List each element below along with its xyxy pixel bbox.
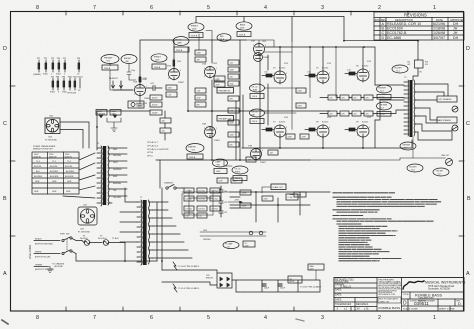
svg-text:D: D xyxy=(3,46,7,52)
svg-text:T2-7: T2-7 xyxy=(438,173,442,175)
svg-text:GRN/WH: GRN/WH xyxy=(403,145,411,147)
corner scan smudge center xyxy=(296,319,304,321)
tube V3A lower xyxy=(202,123,221,143)
svg-text:C: C xyxy=(382,31,385,35)
svg-text:8: 8 xyxy=(357,79,358,81)
svg-text:GRN: GRN xyxy=(66,191,71,193)
svg-text:TO V4-V7 PIN 4,5 AND 9: TO V4-V7 PIN 4,5 AND 9 xyxy=(300,286,321,289)
svg-text:5: 5 xyxy=(357,127,358,129)
svg-text:C: C xyxy=(466,121,470,127)
svg-text:039511: 039511 xyxy=(414,301,429,306)
svg-text:PWR AMP IN: PWR AMP IN xyxy=(219,90,231,93)
svg-text:3/07/97: 3/07/97 xyxy=(433,36,445,40)
svg-text:6: 6 xyxy=(180,70,181,72)
wires connector to transformer xyxy=(60,122,89,148)
impedance callouts right xyxy=(400,142,416,150)
power switch S1 pole B xyxy=(62,239,157,261)
svg-text:8: 8 xyxy=(317,135,318,137)
B+ rail preamp xyxy=(140,40,246,76)
heater twisted pair xyxy=(200,230,266,241)
svg-text:5: 5 xyxy=(207,5,210,11)
svg-text:BLK/YEL: BLK/YEL xyxy=(65,166,73,168)
svg-text:15K B: 15K B xyxy=(252,96,258,98)
svg-text:5A 250V: 5A 250V xyxy=(80,237,88,240)
svg-text:NOT FOUND ASSY: NOT FOUND ASSY xyxy=(379,298,399,301)
wire fuse to transformer xyxy=(125,202,157,261)
svg-text:250K A: 250K A xyxy=(191,34,198,37)
svg-text:6/21/96: 6/21/96 xyxy=(433,22,445,26)
svg-text:3: 3 xyxy=(204,76,205,78)
slave level boxes xyxy=(290,192,306,197)
svg-text:D9 1N4: D9 1N4 xyxy=(212,209,218,211)
svg-text:6L6GC: 6L6GC xyxy=(322,122,329,124)
svg-text:ZON: ZON xyxy=(375,18,381,22)
svg-text:5W: 5W xyxy=(419,72,422,74)
svg-text:.022: .022 xyxy=(248,159,252,161)
svg-text:250p: 250p xyxy=(230,83,234,85)
lamp feed boxes row xyxy=(96,110,121,119)
R3 plate resistor V1A xyxy=(139,76,147,84)
svg-text:D3 1N4: D3 1N4 xyxy=(212,191,218,193)
svg-text:3: 3 xyxy=(134,94,135,96)
svg-text:.047: .047 xyxy=(270,152,274,154)
svg-text:B: B xyxy=(467,196,471,202)
rectifier diode string lower xyxy=(184,206,220,211)
svg-text:3: 3 xyxy=(286,127,287,129)
svg-text:2: 2 xyxy=(134,86,135,88)
svg-text:470: 470 xyxy=(330,98,333,100)
mid pot wire xyxy=(199,31,212,51)
svg-text:7: 7 xyxy=(250,150,251,152)
svg-text:.022: .022 xyxy=(230,62,234,64)
svg-text:470: 470 xyxy=(366,114,369,116)
svg-text:BLK/WH: BLK/WH xyxy=(410,167,418,169)
svg-text:DEEP: DEEP xyxy=(216,162,222,164)
svg-text:RED: RED xyxy=(113,149,118,151)
svg-text:GROUND: GROUND xyxy=(54,266,63,268)
power switch S1 pole A xyxy=(60,234,82,242)
svg-text:5: 5 xyxy=(274,73,275,75)
svg-text:25K B: 25K B xyxy=(252,121,258,123)
svg-text:5: 5 xyxy=(274,127,275,129)
lower channel coupling boxes xyxy=(246,150,278,162)
svg-text:D8 1N4: D8 1N4 xyxy=(199,209,205,211)
svg-text:D11: D11 xyxy=(199,216,202,218)
V8 grid resistor xyxy=(305,128,317,131)
svg-text:ECO1782-B: ECO1782-B xyxy=(387,31,407,35)
svg-text:3: 3 xyxy=(321,315,324,321)
rectifier diode string upper xyxy=(182,188,230,193)
bias callout upper xyxy=(250,84,265,99)
svg-text:Scottsdale, AZ 85258: Scottsdale, AZ 85258 xyxy=(428,287,451,290)
svg-text:LAMP: LAMP xyxy=(137,105,143,108)
svg-text:T2-5: T2-5 xyxy=(404,147,408,149)
bias regulator box xyxy=(288,276,302,283)
svg-text:C: C xyxy=(3,121,7,127)
svg-text:50/60 Hz: 50/60 Hz xyxy=(65,157,73,159)
mid horizontal bus xyxy=(188,110,330,112)
svg-text:REVISIONS: REVISIONS xyxy=(404,13,427,18)
svg-text:820: 820 xyxy=(197,104,200,106)
callout ellipse A (gain) xyxy=(173,37,189,53)
standby switch xyxy=(164,182,182,190)
svg-text:GRN: GRN xyxy=(203,230,208,232)
callout MASTER VOL xyxy=(186,144,204,160)
svg-text:.047uF: .047uF xyxy=(152,98,159,100)
callout MID xyxy=(217,34,231,42)
svg-text:2: 2 xyxy=(378,5,381,11)
value box stack col 228 lower xyxy=(228,96,239,147)
svg-text:DATE:: DATE: xyxy=(335,289,342,292)
bias supply wires xyxy=(162,270,320,292)
svg-text:D: D xyxy=(466,46,470,52)
svg-text:RED/WH: RED/WH xyxy=(113,155,122,157)
mains connector CN1 xyxy=(78,205,97,234)
HT filter caps xyxy=(219,186,227,217)
svg-text:PERSON WITHOUT WRITTEN: PERSON WITHOUT WRITTEN xyxy=(379,289,402,291)
top-left dropping resistor bank row 2 xyxy=(50,77,84,95)
svg-text:8: 8 xyxy=(274,81,275,83)
svg-text:BLK/RED: BLK/RED xyxy=(66,171,75,173)
svg-text:50/60 Hz: 50/60 Hz xyxy=(49,157,57,159)
svg-text:MC78: MC78 xyxy=(290,281,295,283)
svg-text:4: 4 xyxy=(264,5,267,11)
svg-text:8: 8 xyxy=(168,78,169,80)
export voltage selector table xyxy=(32,145,79,194)
svg-text:V2A: V2A xyxy=(202,63,206,66)
svg-text:TO V1-V3 PIN 4,5 AND 9: TO V1-V3 PIN 4,5 AND 9 xyxy=(178,287,199,290)
resistor strings center xyxy=(188,40,260,160)
svg-text:D4 1N4: D4 1N4 xyxy=(186,199,192,201)
corner scan smudge left xyxy=(2,320,8,324)
V6 grid resistor xyxy=(345,70,357,76)
svg-text:T2-3: T2-3 xyxy=(380,107,384,109)
svg-text:GRN: GRN xyxy=(34,191,39,193)
notes text lines xyxy=(333,193,441,261)
callout PRE AMP VOL xyxy=(101,55,119,71)
preamp B+ dropping chain xyxy=(160,111,171,140)
cathode network V1A xyxy=(136,96,148,108)
svg-text:10K B: 10K B xyxy=(219,39,225,41)
svg-text:T2-6: T2-6 xyxy=(411,169,415,171)
callout TREBLE ch1 xyxy=(151,54,167,69)
svg-text:C31: C31 xyxy=(224,202,227,204)
svg-text:.XX: .XX xyxy=(356,308,360,311)
line out feed wire xyxy=(310,158,413,160)
svg-text:±.01: ±.01 xyxy=(364,308,369,311)
screen supply drops xyxy=(309,46,365,97)
svg-text:BLK/YEL: BLK/YEL xyxy=(34,166,42,168)
svg-text:250K A: 250K A xyxy=(239,33,246,36)
balance callout lower xyxy=(250,109,265,124)
svg-text:USED ON: USED ON xyxy=(379,301,389,303)
svg-text:DATE:: DATE: xyxy=(335,294,342,297)
svg-text:WHITE: WHITE xyxy=(35,252,42,254)
mid bus wire xyxy=(97,111,150,150)
svg-text:RELEASED, COR 10: RELEASED, COR 10 xyxy=(387,22,421,26)
callout PRESENCE xyxy=(232,166,248,181)
svg-text:BRN/WH: BRN/WH xyxy=(379,88,387,90)
svg-text:B: B xyxy=(3,196,7,202)
svg-text:6: 6 xyxy=(262,150,263,152)
svg-text:470: 470 xyxy=(342,98,345,100)
svg-text:LINE OUT: LINE OUT xyxy=(441,155,450,157)
power tube V6 xyxy=(356,66,369,83)
svg-text:OPT-A Ch 7: OPT-A Ch 7 xyxy=(147,141,159,144)
svg-text:PWR: PWR xyxy=(60,234,65,236)
power tube V8 xyxy=(316,122,329,139)
fender logo squiggle xyxy=(403,281,424,289)
T2 winding colour callouts xyxy=(392,65,408,73)
svg-text:OPT-A-Ch-2: OPT-A-Ch-2 xyxy=(147,144,159,147)
svg-text:GAIN: GAIN xyxy=(177,41,182,44)
svg-text:V3B: V3B xyxy=(248,146,252,148)
line out jack xyxy=(413,137,453,166)
svg-text:RUMBLE BASS: RUMBLE BASS xyxy=(379,306,401,310)
svg-text:3: 3 xyxy=(329,127,330,129)
svg-text:TREBLE: TREBLE xyxy=(154,57,162,59)
svg-text:SW: SW xyxy=(217,164,220,166)
svg-text:250K A: 250K A xyxy=(104,67,111,70)
svg-text:(-MEAS): (-MEAS) xyxy=(33,73,41,76)
svg-text:12AX7: 12AX7 xyxy=(260,161,267,164)
svg-text:PROPRIETARY: PROPRIETARY xyxy=(379,278,395,281)
power transformer T1 secondary winding xyxy=(97,143,122,206)
top-left dropping resistor bank row 1 xyxy=(33,58,81,76)
rectifier diode string lowest xyxy=(184,213,207,218)
svg-text:6: 6 xyxy=(150,315,153,321)
svg-text:12AX7: 12AX7 xyxy=(263,56,270,59)
svg-text:LEVEL: LEVEL xyxy=(296,195,302,197)
svg-text:ECO1699: ECO1699 xyxy=(387,27,403,31)
tube V1A xyxy=(133,81,151,101)
T1 primary lead wires xyxy=(120,188,192,258)
svg-text:3: 3 xyxy=(286,73,287,75)
svg-text:100K: 100K xyxy=(216,171,221,173)
svg-text:SW: SW xyxy=(66,234,69,236)
svg-text:12AX7: 12AX7 xyxy=(214,139,221,142)
svg-text:YEL/WH: YEL/WH xyxy=(113,197,121,199)
svg-text:250pF: 250pF xyxy=(152,113,158,115)
svg-text:2: 2 xyxy=(204,128,205,130)
svg-text:V.R. 03: V.R. 03 xyxy=(235,169,241,171)
svg-text:50/60 Hz: 50/60 Hz xyxy=(34,157,42,159)
T2 primary feed wires xyxy=(375,85,404,120)
svg-text:GRN/WH: GRN/WH xyxy=(203,239,211,241)
svg-text:OPT-C: OPT-C xyxy=(147,156,154,158)
filter cap boxes right of diodes xyxy=(240,190,273,208)
svg-text:3: 3 xyxy=(369,71,370,73)
svg-text:470: 470 xyxy=(354,114,357,116)
line cord white wire xyxy=(34,252,60,259)
tube V1B xyxy=(167,66,185,85)
callout TREBLE ch2 xyxy=(188,23,204,38)
svg-text:D1 1N4: D1 1N4 xyxy=(186,191,192,193)
svg-text:STANDBY: STANDBY xyxy=(164,182,174,185)
top right feed wire xyxy=(196,17,418,42)
title block middle column: proprietary notice xyxy=(378,278,403,310)
phase inverter node wires xyxy=(264,41,296,130)
svg-text:T2 PRI: T2 PRI xyxy=(379,97,385,99)
svg-text:6L6GC: 6L6GC xyxy=(279,122,286,124)
speaker output jacks xyxy=(437,96,458,131)
svg-text:470: 470 xyxy=(425,64,428,66)
svg-text:D7 1N4: D7 1N4 xyxy=(186,209,192,211)
svg-text:ORG/WH: ORG/WH xyxy=(380,105,388,107)
svg-text:BLK/GRN: BLK/GRN xyxy=(65,176,74,178)
lightning bolts heater feed xyxy=(173,262,199,292)
line cord label xyxy=(28,245,32,259)
svg-text:250K A: 250K A xyxy=(154,66,161,69)
svg-text:V2B: V2B xyxy=(251,41,255,43)
svg-text:TITLE:: TITLE: xyxy=(403,294,410,296)
title block left column rows xyxy=(334,279,377,312)
tube V3B lower xyxy=(248,146,267,165)
svg-text:C30: C30 xyxy=(224,191,227,193)
svg-text:BLK/RED: BLK/RED xyxy=(50,171,59,173)
wire table to bus xyxy=(156,160,160,188)
V9 grid resistor xyxy=(345,128,357,131)
svg-text:TUBE AMPLIFIER: TUBE AMPLIFIER xyxy=(418,297,434,300)
svg-text:PA INPUT: PA INPUT xyxy=(109,77,119,80)
stack of value boxes col 200 xyxy=(195,50,206,107)
pilot lamp assembly xyxy=(223,241,239,248)
svg-text:T1-2: T1-2 xyxy=(52,161,56,163)
svg-text:8: 8 xyxy=(36,5,39,11)
supply arrow right xyxy=(228,200,242,204)
line cord black wire xyxy=(34,238,60,246)
svg-text:T2-1: T2-1 xyxy=(396,70,400,72)
voltage specks xyxy=(143,41,372,119)
rectifier diode string mid xyxy=(184,196,220,201)
svg-text:5: 5 xyxy=(317,127,318,129)
screen resistor row lower xyxy=(320,111,378,116)
T2 secondary wires to jacks xyxy=(418,84,452,140)
svg-text:6: 6 xyxy=(150,5,153,11)
svg-text:250K: 250K xyxy=(155,59,160,61)
svg-text:8: 8 xyxy=(36,315,39,321)
svg-text:1/18/98: 1/18/98 xyxy=(433,27,445,31)
V7 grid resistor xyxy=(262,128,274,131)
pilot lamp box xyxy=(128,101,144,108)
svg-text:MUSICAL INSTRUMENTS: MUSICAL INSTRUMENTS xyxy=(425,281,466,285)
svg-text:EXT. SPEAKER: EXT. SPEAKER xyxy=(439,98,452,101)
svg-text:100uF: 100uF xyxy=(242,193,248,195)
svg-text:+490V: +490V xyxy=(234,200,240,202)
plate bus bottom row xyxy=(242,120,412,148)
tube V2A xyxy=(202,63,221,83)
svg-text:4: 4 xyxy=(264,315,267,321)
bright cap C2 xyxy=(127,64,136,80)
svg-text:1: 1 xyxy=(146,86,147,88)
svg-text:100uF: 100uF xyxy=(280,288,286,290)
svg-text:7: 7 xyxy=(253,45,254,47)
T1 secondary lead wires xyxy=(112,148,127,196)
svg-text:POWER TRANSFORMER: POWER TRANSFORMER xyxy=(33,145,56,148)
callout lower DEEP xyxy=(213,159,228,174)
svg-text:3: 3 xyxy=(329,73,330,75)
driver tube V3 second triode xyxy=(254,52,293,62)
svg-text:BRIDGE: BRIDGE xyxy=(206,278,214,280)
svg-text:D: D xyxy=(382,36,385,40)
svg-text:BAL: BAL xyxy=(252,113,255,116)
supply label boxes xyxy=(217,178,242,183)
svg-text:V3A: V3A xyxy=(202,123,206,126)
svg-text:SLAVE OUT: SLAVE OUT xyxy=(273,186,284,189)
svg-text:BASS: BASS xyxy=(240,24,246,27)
svg-text:820: 820 xyxy=(230,144,233,146)
selector table arrows to transformer xyxy=(63,153,95,198)
svg-text:T2-2: T2-2 xyxy=(380,90,384,92)
svg-text:7: 7 xyxy=(93,5,96,11)
svg-text:6: 6 xyxy=(265,45,266,47)
svg-text:JH: JH xyxy=(453,27,458,31)
choke boxes xyxy=(286,194,298,200)
svg-text:100uF: 100uF xyxy=(264,288,270,290)
svg-text:1: 1 xyxy=(433,315,436,321)
svg-text:OPTIONS: OPTIONS xyxy=(67,93,77,95)
svg-text:WIRING FOR EXPORT: WIRING FOR EXPORT xyxy=(33,149,54,151)
svg-text:10K B: 10K B xyxy=(235,178,241,180)
svg-text:7: 7 xyxy=(168,70,169,72)
svg-text:250K: 250K xyxy=(240,28,245,30)
svg-text:7: 7 xyxy=(93,315,96,321)
svg-text:8: 8 xyxy=(317,81,318,83)
svg-text:470: 470 xyxy=(366,98,369,100)
svg-text:TO V4-V7 PIN 4,5 AND 9: TO V4-V7 PIN 4,5 AND 9 xyxy=(178,265,199,268)
power tube V4 xyxy=(273,68,286,85)
svg-text:DH: DH xyxy=(453,36,459,40)
svg-text:BLACK: BLACK xyxy=(35,238,42,241)
svg-text:D: D xyxy=(403,301,407,307)
bias filter caps xyxy=(262,284,286,290)
svg-text:VOL: VOL xyxy=(192,149,196,151)
svg-text:INSTRUMENTS CORP.: INSTRUMENTS CORP. xyxy=(379,294,396,296)
option text lines xyxy=(147,141,169,158)
svg-text:12AX7: 12AX7 xyxy=(178,81,185,84)
svg-text:P1 GROUND: P1 GROUND xyxy=(78,231,90,233)
svg-text:5: 5 xyxy=(317,73,318,75)
callout BASS xyxy=(236,22,252,37)
svg-text:OPT-B: OPT-B xyxy=(147,152,154,154)
wire standby to rails xyxy=(162,188,240,270)
svg-text:D10: D10 xyxy=(186,216,189,218)
FX return wide box xyxy=(217,116,234,122)
svg-text:GRN: GRN xyxy=(52,191,57,193)
title block xyxy=(334,278,466,312)
svg-text:V.R. 02: V.R. 02 xyxy=(175,40,181,42)
svg-text:MAIN SPEAKER: MAIN SPEAKER xyxy=(438,119,452,122)
V4 grid resistor xyxy=(262,72,274,78)
plate bus top row xyxy=(265,47,375,85)
stack of value boxes col 232 xyxy=(228,60,239,86)
svg-text:V.R. 04: V.R. 04 xyxy=(252,87,258,89)
svg-text:8: 8 xyxy=(274,135,275,137)
svg-text:GREEN: GREEN xyxy=(35,264,43,266)
svg-text:V1A: V1A xyxy=(133,81,137,84)
V2B plate wire xyxy=(246,40,274,47)
svg-text:5: 5 xyxy=(357,71,358,73)
svg-text:GRN: GRN xyxy=(113,162,118,164)
slave out wide box xyxy=(262,184,286,193)
svg-text:EC-1886: EC-1886 xyxy=(387,36,401,40)
svg-text:V.R. 05: V.R. 05 xyxy=(252,112,258,114)
svg-text:D5 1N4: D5 1N4 xyxy=(199,199,205,201)
svg-text:5: 5 xyxy=(207,315,210,321)
svg-text:3: 3 xyxy=(321,5,324,11)
long vertical feeds center xyxy=(236,55,268,160)
svg-text:L1 4H: L1 4H xyxy=(288,197,293,199)
